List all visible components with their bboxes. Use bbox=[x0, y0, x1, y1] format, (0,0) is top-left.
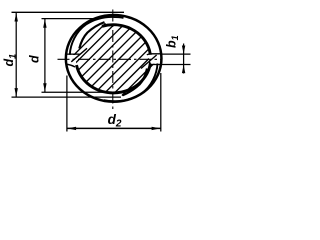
b1 arrow up (below) bbox=[182, 65, 185, 73]
d1 arrow up bbox=[15, 13, 18, 22]
hatch inside pin core bbox=[1, 0, 229, 145]
centerline vertical bbox=[112, 10, 114, 110]
right slot seam diagonal bbox=[141, 55, 157, 69]
b1 top extension line bbox=[160, 53, 191, 55]
right slot top edge bbox=[147, 54, 162, 55]
left slot white opening bbox=[65, 55, 80, 64]
inner core boundary (main arc, bottom/right/left) bbox=[77, 25, 151, 93]
d1 dimension line bbox=[15, 12, 17, 97]
centerline horizontal bbox=[58, 58, 163, 60]
d2 left extension line bbox=[66, 76, 68, 132]
d2 arrow left bbox=[67, 127, 76, 130]
d bottom extension line bbox=[42, 91, 107, 93]
d arrow down bbox=[43, 83, 46, 92]
left slot seam diagonal bbox=[71, 48, 87, 62]
svg-text:d: d bbox=[28, 55, 42, 63]
crescent arc bottom-right (outer coil seam) bbox=[104, 63, 158, 101]
outer circle bbox=[66, 15, 162, 102]
left slot top edge bbox=[66, 53, 80, 55]
b1 arrow down (above) bbox=[182, 46, 185, 54]
d2 right extension line bbox=[160, 73, 162, 132]
right slot white opening bbox=[147, 55, 161, 64]
d2 arrow right bbox=[152, 127, 161, 130]
d1 arrow down bbox=[15, 88, 18, 97]
d2 dimension line bbox=[67, 127, 161, 129]
d arrow up bbox=[43, 19, 46, 28]
d1 bottom extension line bbox=[12, 96, 122, 98]
core boundary merge arc lower-right bbox=[123, 69, 148, 96]
left slot bottom edge bbox=[66, 64, 75, 67]
b1 bottom extension line bbox=[160, 64, 191, 66]
crescent arc top-left (outer coil seam) bbox=[70, 17, 124, 55]
b1 dimension line bbox=[183, 44, 185, 74]
core boundary merge arc upper-left bbox=[79, 22, 104, 48]
d1 top extension line bbox=[12, 11, 125, 13]
d dimension line bbox=[44, 19, 46, 93]
d top extension line bbox=[42, 18, 98, 20]
right slot bottom edge bbox=[151, 64, 162, 66]
